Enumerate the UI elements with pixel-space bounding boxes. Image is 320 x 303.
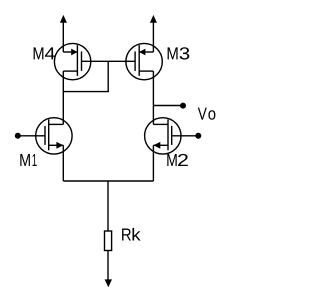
node M2 gate terminal dot	[195, 133, 201, 139]
supply arrow right	[150, 15, 157, 52]
label M3	[168, 47, 190, 59]
wire tail down to resistor	[107, 181, 109, 231]
node M1 gate terminal dot	[15, 133, 21, 139]
wire M2 gate input	[172, 135, 199, 137]
wire gate M4 to gate M3	[82, 60, 136, 62]
wire diode-connection tap	[63, 61, 108, 91]
label M1	[20, 154, 36, 166]
label Vo	[198, 108, 216, 120]
label M2	[167, 154, 188, 166]
wire M2 source down	[152, 145, 154, 181]
label M4	[34, 47, 55, 59]
wire M1 source down	[62, 145, 64, 181]
supply arrow left	[60, 15, 67, 52]
wire M1 gate input	[18, 135, 45, 137]
transistor M2	[145, 118, 181, 154]
label Rk	[122, 228, 141, 241]
current arrow down	[105, 279, 112, 287]
wire Vo tap	[153, 105, 183, 107]
wire left rail M4 drain to M1 drain	[62, 71, 64, 124]
wire resistor to arrow	[107, 251, 109, 280]
wire source bus	[63, 180, 153, 182]
resistor Rk	[105, 231, 112, 251]
transistor M1	[36, 118, 72, 154]
transistor M4	[54, 43, 90, 79]
transistor M3	[126, 43, 162, 79]
wire right rail M3 drain to M2 drain	[152, 71, 154, 124]
node Vo terminal dot	[180, 103, 186, 109]
